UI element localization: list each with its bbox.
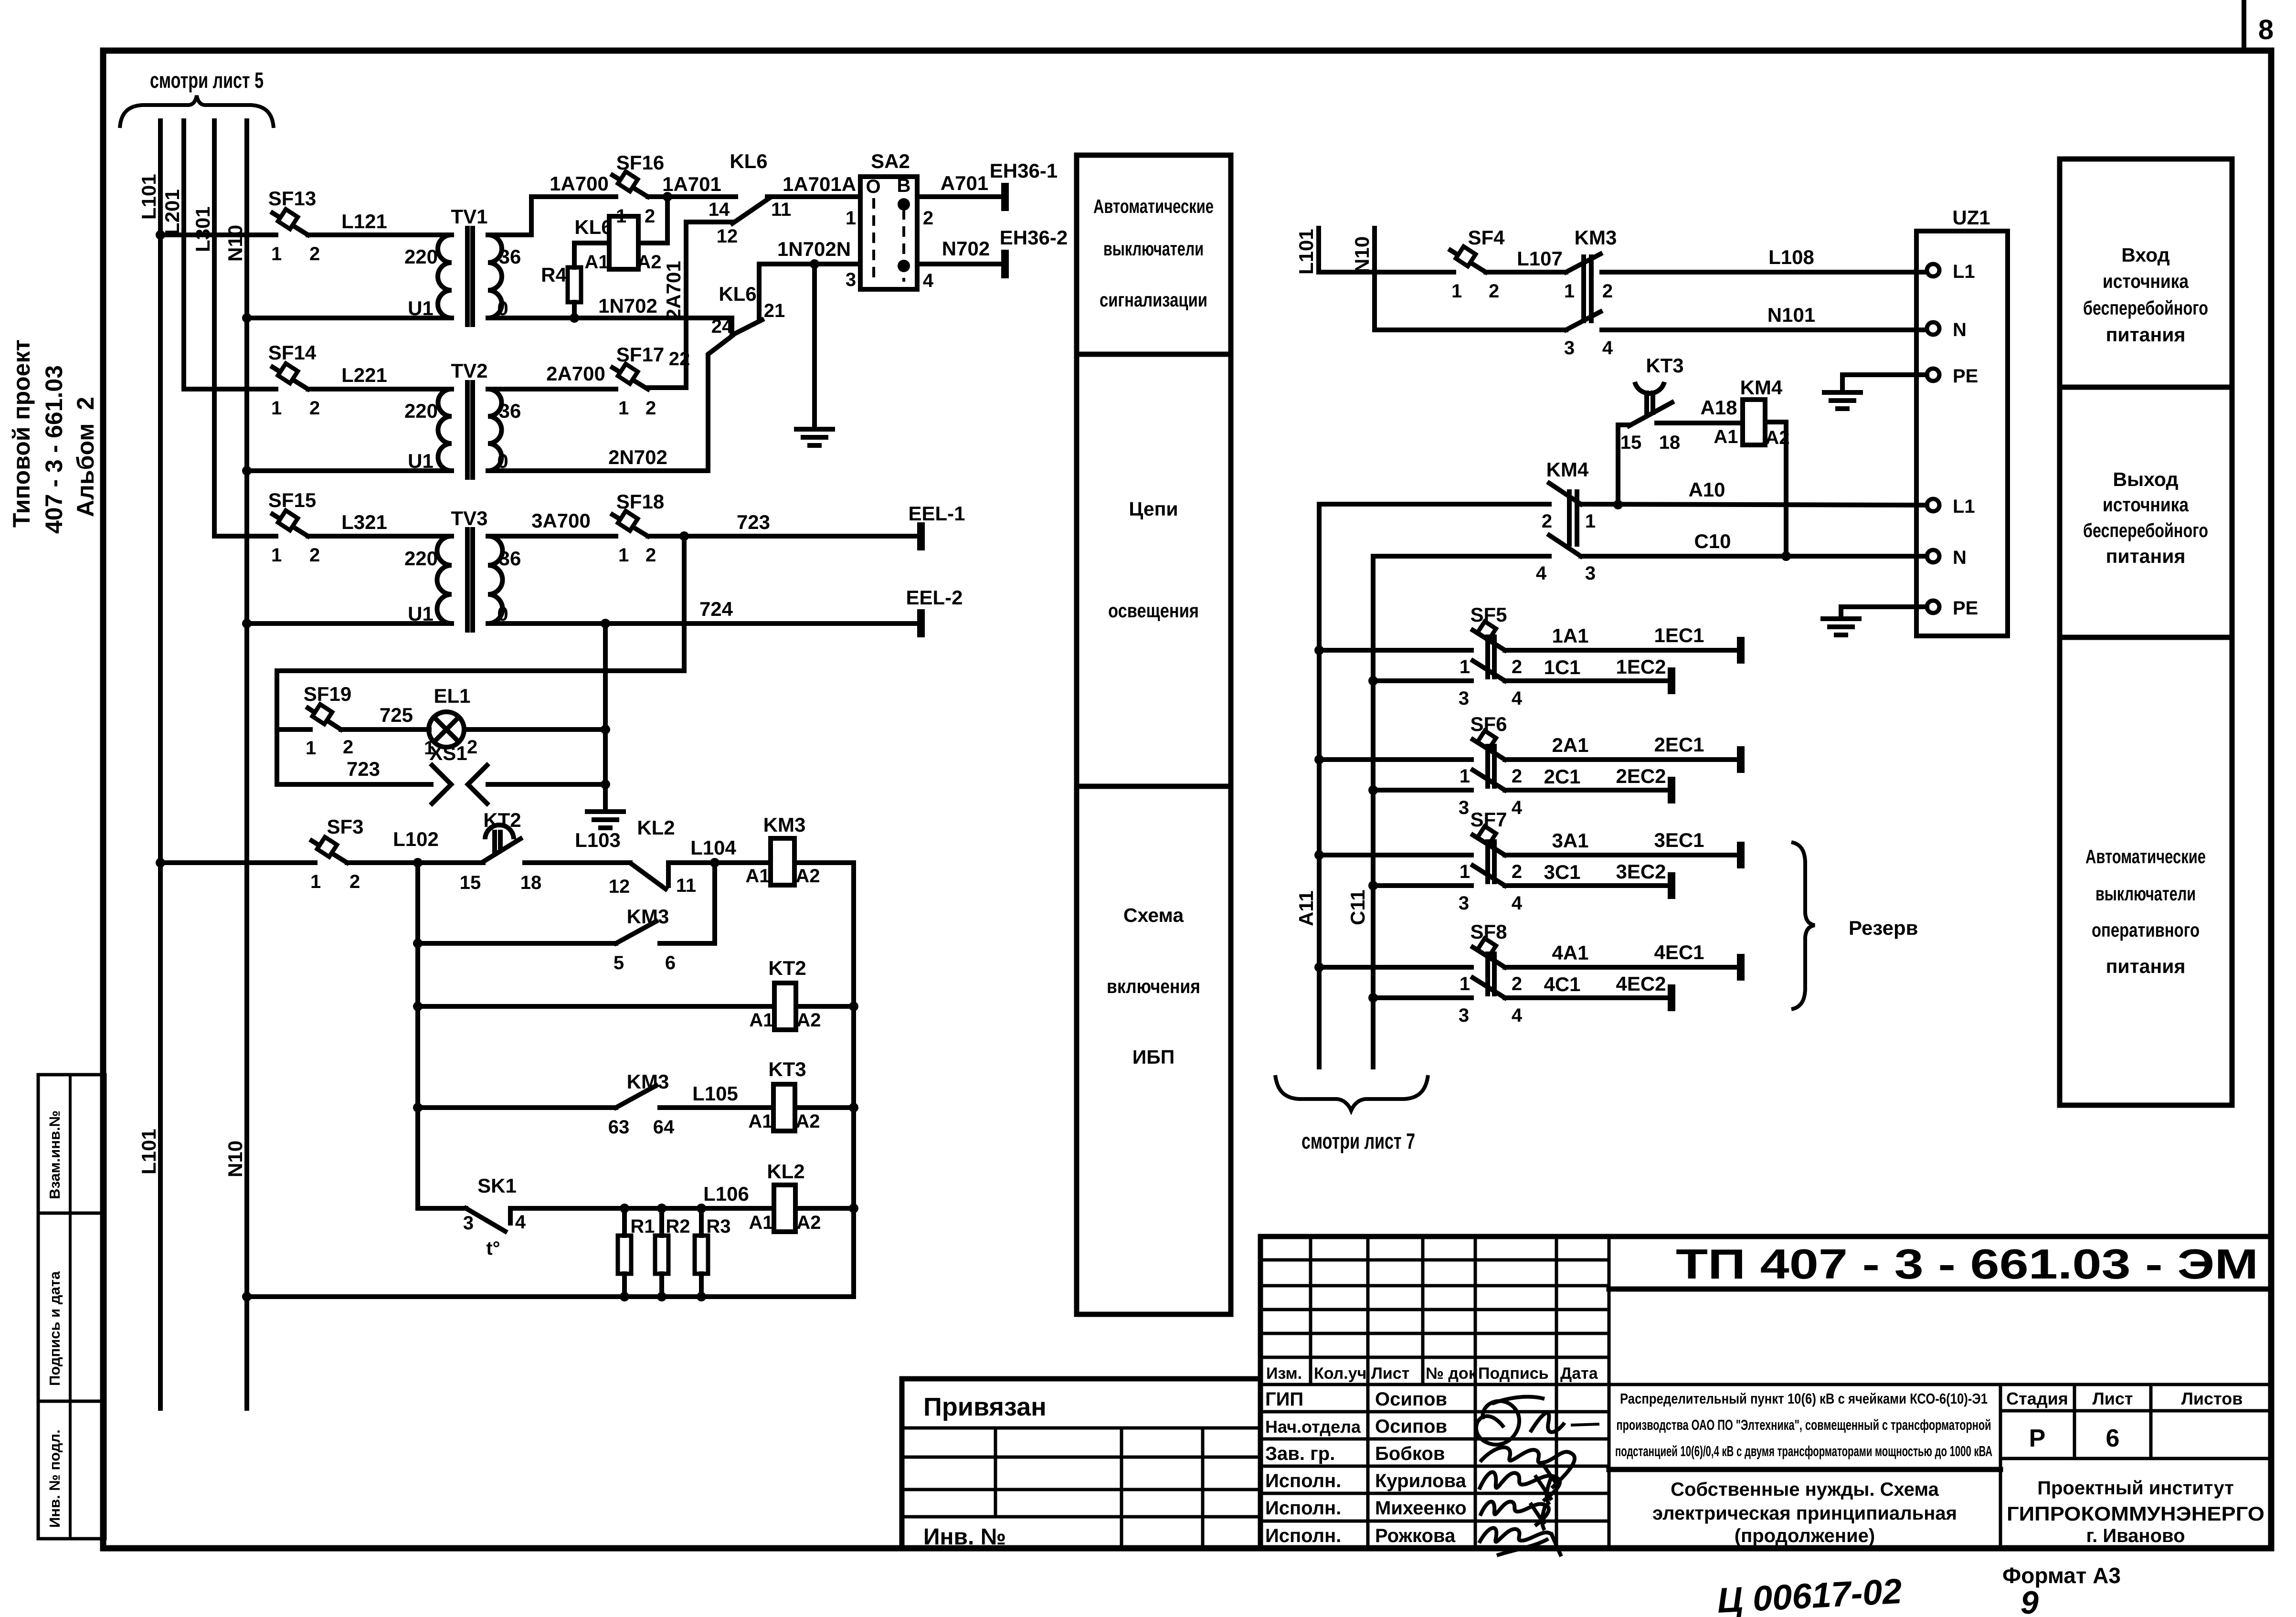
wire 1A1 to terminal bbox=[1505, 624, 1741, 650]
svg-text:1: 1 bbox=[271, 243, 282, 264]
wire 723 to terminal bbox=[648, 511, 921, 536]
svg-text:Осипов: Осипов bbox=[1375, 1389, 1447, 1410]
svg-text:A1: A1 bbox=[1714, 426, 1738, 447]
contactor coil KM4 bbox=[1714, 376, 1789, 448]
wire L221 bbox=[308, 364, 452, 389]
svg-text:2: 2 bbox=[1512, 861, 1522, 882]
lamp EL1 bbox=[424, 685, 477, 759]
svg-text:выключатели: выключатели bbox=[2095, 883, 2196, 905]
svg-text:Кол.уч: Кол.уч bbox=[1314, 1364, 1366, 1383]
contact SK1 thermal bbox=[418, 1174, 526, 1259]
transformer TV3 bbox=[404, 507, 521, 630]
node L101/SF3 junction bbox=[156, 858, 165, 867]
svg-text:источника: источника bbox=[2103, 494, 2189, 516]
svg-text:725: 725 bbox=[380, 704, 413, 726]
node A11 SF7 junction bbox=[1314, 850, 1324, 860]
svg-text:EEL-2: EEL-2 bbox=[906, 586, 963, 609]
breaker SF19 bbox=[277, 683, 353, 759]
svg-text:C11: C11 bbox=[1346, 889, 1369, 925]
svg-text:SF7: SF7 bbox=[1470, 808, 1507, 831]
node XS1 row junction bbox=[601, 780, 610, 789]
svg-text:N: N bbox=[1953, 319, 1967, 340]
svg-text:(продолжение): (продолжение) bbox=[1735, 1525, 1875, 1546]
svg-text:1: 1 bbox=[1564, 281, 1575, 302]
svg-text:3C1: 3C1 bbox=[1544, 861, 1580, 883]
svg-text:SF19: SF19 bbox=[304, 683, 351, 705]
breaker SF18 bbox=[613, 490, 664, 566]
wire 1A701 bbox=[648, 173, 736, 197]
svg-text:SF15: SF15 bbox=[268, 489, 316, 511]
breaker SF5 2pole bbox=[1319, 603, 1523, 709]
svg-text:1: 1 bbox=[271, 398, 282, 419]
bus N10 bbox=[224, 121, 247, 1408]
svg-text:смотри лист 7: смотри лист 7 bbox=[1301, 1129, 1415, 1153]
wire to KT2 coil bbox=[418, 1004, 774, 1009]
svg-text:1A1: 1A1 bbox=[1552, 624, 1588, 647]
wire lamp to ground bus bbox=[464, 727, 605, 732]
right legend divider 2 bbox=[2060, 635, 2232, 640]
svg-text:723: 723 bbox=[347, 758, 380, 780]
wire L101 to SF13 bbox=[160, 233, 276, 237]
svg-text:3: 3 bbox=[463, 1213, 474, 1234]
svg-text:24: 24 bbox=[711, 316, 733, 337]
svg-text:R2: R2 bbox=[666, 1216, 690, 1237]
svg-text:смотри лист 5: смотри лист 5 bbox=[150, 68, 264, 93]
svg-text:бесперебойного: бесперебойного bbox=[2083, 519, 2208, 541]
legend text Автоматические выключатели сигнализации bbox=[1093, 195, 1214, 311]
svg-text:4: 4 bbox=[515, 1212, 526, 1233]
node branch KM3-63 junction bbox=[413, 1103, 423, 1112]
node L101 right stub bbox=[1295, 228, 1319, 275]
node KT3 rail junction bbox=[849, 1103, 858, 1112]
svg-text:11: 11 bbox=[676, 875, 696, 896]
svg-text:PE: PE bbox=[1953, 598, 1978, 619]
wire L102 bbox=[347, 828, 461, 863]
node C10 junction bbox=[1781, 551, 1791, 561]
svg-text:1: 1 bbox=[306, 738, 316, 759]
svg-text:KL6: KL6 bbox=[730, 150, 767, 172]
legend text Цепи освещения bbox=[1108, 498, 1199, 622]
resistor R4 bbox=[541, 243, 609, 318]
svg-text:Схема: Схема bbox=[1123, 904, 1184, 926]
dash in date column bbox=[1571, 1424, 1599, 1425]
svg-text:A1: A1 bbox=[749, 1010, 773, 1031]
breaker SF14 bbox=[268, 341, 320, 419]
node C11 SF5 junction bbox=[1368, 676, 1378, 686]
svg-text:UZ1: UZ1 bbox=[1952, 206, 1990, 229]
wire KM4 coil A2 down to C10 bbox=[1765, 422, 1786, 556]
node N10 bottom junction bbox=[242, 1292, 252, 1301]
svg-text:KL6: KL6 bbox=[719, 283, 756, 305]
wire 2N702 bbox=[488, 446, 708, 471]
svg-text:4: 4 bbox=[1512, 1005, 1523, 1026]
breaker SF17 bbox=[613, 343, 664, 419]
svg-text:KM3: KM3 bbox=[627, 1070, 669, 1093]
legend text Выход источника бесперебойного питания bbox=[2083, 468, 2208, 567]
svg-text:A2: A2 bbox=[796, 1212, 821, 1233]
wire KT2 coil to rail bbox=[796, 1004, 854, 1009]
svg-text:2: 2 bbox=[645, 545, 656, 566]
wire L121 bbox=[308, 210, 452, 235]
wire L108 bbox=[1602, 246, 1927, 272]
svg-text:Михеенко: Михеенко bbox=[1375, 1498, 1467, 1519]
terminal 3EC2 bbox=[1668, 872, 1675, 899]
svg-text:SF13: SF13 bbox=[268, 187, 316, 210]
wire TV2 primary bottom to N10 bbox=[247, 468, 452, 473]
svg-text:Лист: Лист bbox=[2092, 1389, 2133, 1408]
wire N101 bbox=[1602, 304, 1927, 330]
svg-text:KT2: KT2 bbox=[768, 957, 806, 979]
signature Бобков bbox=[1480, 1447, 1575, 1488]
svg-text:производства ОАО ПО "Элтехника: производства ОАО ПО "Элтехника", совмеще… bbox=[1617, 1416, 1991, 1433]
svg-text:3: 3 bbox=[1459, 893, 1469, 914]
svg-text:Р: Р bbox=[2029, 1425, 2046, 1452]
svg-text:L201: L201 bbox=[161, 189, 183, 235]
wire A10 bbox=[1581, 478, 1927, 505]
node N10/TV1 junction bbox=[242, 313, 252, 323]
bus L301 bbox=[191, 121, 276, 536]
terminal 4EC1 bbox=[1737, 954, 1745, 981]
svg-text:3: 3 bbox=[846, 269, 856, 290]
привязан box bbox=[902, 1379, 1260, 1550]
wire to ground from 1N702N bbox=[812, 264, 817, 429]
svg-text:электрическая принципиальная: электрическая принципиальная bbox=[1652, 1503, 1957, 1524]
wire 3C1 to terminal bbox=[1505, 860, 1672, 886]
svg-text:4: 4 bbox=[1512, 797, 1523, 818]
svg-text:L102: L102 bbox=[393, 828, 439, 850]
svg-text:220: 220 bbox=[404, 400, 438, 422]
svg-text:4EC1: 4EC1 bbox=[1654, 941, 1704, 963]
wire N702 bbox=[917, 237, 1005, 264]
svg-text:64: 64 bbox=[653, 1117, 675, 1138]
svg-text:Стадия: Стадия bbox=[2006, 1389, 2068, 1408]
wire 3A1 to terminal bbox=[1505, 829, 1741, 855]
svg-text:Альбом 2: Альбом 2 bbox=[72, 397, 99, 517]
svg-text:A1: A1 bbox=[748, 1111, 772, 1132]
svg-text:L321: L321 bbox=[341, 511, 387, 533]
institute name bbox=[2007, 1478, 2264, 1546]
svg-text:6: 6 bbox=[665, 952, 676, 973]
svg-text:2: 2 bbox=[645, 206, 655, 227]
svg-text:Резерв: Резерв bbox=[1849, 917, 1918, 939]
contactor coil KM3 bbox=[745, 814, 820, 887]
svg-text:Инв. №: Инв. № bbox=[923, 1524, 1006, 1550]
svg-text:2: 2 bbox=[349, 871, 360, 892]
svg-text:2A700: 2A700 bbox=[546, 362, 605, 385]
svg-text:TV3: TV3 bbox=[451, 507, 487, 529]
wire TV1 primary bottom to N10 bbox=[247, 316, 452, 320]
svg-text:EL1: EL1 bbox=[434, 685, 470, 707]
svg-text:N101: N101 bbox=[1767, 304, 1815, 326]
wire control bottom return bbox=[247, 1294, 854, 1299]
node branch KT2 coil junction bbox=[413, 1002, 423, 1011]
svg-text:SF17: SF17 bbox=[616, 343, 664, 366]
svg-text:A2: A2 bbox=[795, 866, 820, 887]
resistor R1 bbox=[618, 1204, 655, 1301]
svg-text:36: 36 bbox=[499, 245, 521, 268]
resistor R2 bbox=[655, 1204, 690, 1301]
svg-text:N10: N10 bbox=[224, 225, 246, 262]
svg-text:R1: R1 bbox=[630, 1216, 655, 1237]
node A11 SF6 junction bbox=[1314, 755, 1324, 764]
svg-text:1A701: 1A701 bbox=[662, 173, 721, 195]
svg-text:R4: R4 bbox=[541, 264, 567, 286]
svg-text:г. Иваново: г. Иваново bbox=[2086, 1525, 2185, 1546]
svg-text:11: 11 bbox=[771, 199, 791, 220]
svg-text:2N702: 2N702 bbox=[608, 446, 667, 468]
node control branch junction bbox=[413, 858, 423, 867]
svg-text:L107: L107 bbox=[1517, 247, 1563, 270]
svg-text:A2: A2 bbox=[795, 1111, 820, 1132]
svg-text:1: 1 bbox=[1460, 861, 1470, 882]
svg-text:Типовой проект: Типовой проект bbox=[8, 339, 35, 528]
svg-text:Автоматические: Автоматические bbox=[1093, 195, 1214, 217]
wire 1A701A bbox=[767, 173, 860, 197]
svg-text:Выход: Выход bbox=[2113, 468, 2179, 490]
svg-text:3: 3 bbox=[1585, 563, 1596, 584]
resistor R3 bbox=[695, 1204, 731, 1301]
terminal 3EC1 bbox=[1737, 842, 1745, 868]
wire L106 bbox=[510, 1183, 774, 1208]
transformer TV1 bbox=[404, 205, 521, 325]
svg-text:L104: L104 bbox=[690, 836, 736, 859]
ground symbol below SA2 bbox=[796, 429, 833, 445]
node 724 tap junction bbox=[601, 619, 610, 628]
svg-text:2A701: 2A701 bbox=[662, 261, 685, 320]
svg-text:C10: C10 bbox=[1694, 530, 1731, 552]
svg-text:KT3: KT3 bbox=[1646, 354, 1683, 377]
svg-text:4C1: 4C1 bbox=[1544, 973, 1580, 995]
stamp cell Инв. № подл. bbox=[38, 1401, 105, 1539]
terminal 4EC2 bbox=[1668, 984, 1675, 1011]
svg-text:2: 2 bbox=[1512, 973, 1522, 994]
svg-text:Изм.: Изм. bbox=[1266, 1364, 1302, 1383]
svg-text:L1: L1 bbox=[1953, 496, 1975, 517]
relay coil KT3 bbox=[748, 1058, 820, 1132]
socket XS1 bbox=[429, 742, 487, 803]
svg-text:источника: источника bbox=[2103, 270, 2189, 292]
wire A18 bbox=[1657, 396, 1743, 423]
svg-text:SF8: SF8 bbox=[1470, 920, 1507, 943]
svg-text:L121: L121 bbox=[341, 210, 387, 233]
svg-text:A10: A10 bbox=[1688, 478, 1725, 501]
UPS unit UZ1 bbox=[1916, 206, 2008, 636]
ground symbol PE bottom bbox=[1823, 619, 1859, 635]
svg-text:SF5: SF5 bbox=[1470, 603, 1507, 626]
svg-text:питания: питания bbox=[2106, 324, 2186, 346]
terminal EEL-1 bbox=[908, 502, 965, 550]
svg-text:KM4: KM4 bbox=[1546, 458, 1589, 481]
wire 723 socket row bbox=[277, 758, 431, 784]
svg-text:№ док: № док bbox=[1426, 1364, 1477, 1383]
relay coil KL6 bbox=[574, 216, 661, 273]
signature Михеенко bbox=[1480, 1501, 1549, 1530]
contactor contact KM3 main bbox=[1564, 226, 1617, 359]
svg-text:L101: L101 bbox=[138, 1129, 160, 1174]
svg-text:Подпись: Подпись bbox=[1478, 1364, 1549, 1383]
wire 2A700 bbox=[488, 362, 616, 389]
node N10/TV3 junction bbox=[242, 619, 252, 628]
terminal EEL-2 bbox=[906, 586, 963, 637]
svg-text:18: 18 bbox=[520, 872, 542, 893]
svg-text:2EC1: 2EC1 bbox=[1654, 733, 1704, 756]
svg-text:SF18: SF18 bbox=[616, 490, 664, 513]
wire 1A700 riser bbox=[488, 172, 616, 235]
svg-text:KM3: KM3 bbox=[1575, 226, 1617, 249]
node L104 junction bbox=[710, 858, 719, 867]
middle legend divider 1 bbox=[1077, 352, 1231, 357]
svg-text:3: 3 bbox=[1459, 797, 1469, 818]
svg-text:освещения: освещения bbox=[1108, 600, 1199, 622]
wire L107 bbox=[1486, 247, 1566, 272]
svg-text:ГИП: ГИП bbox=[1265, 1389, 1303, 1410]
svg-text:Исполн.: Исполн. bbox=[1265, 1470, 1341, 1491]
wire KM3 aux to L104 node bbox=[660, 863, 715, 943]
svg-text:SF14: SF14 bbox=[268, 341, 317, 364]
svg-text:4: 4 bbox=[923, 270, 934, 291]
svg-text:L106: L106 bbox=[703, 1183, 749, 1205]
svg-text:Лист: Лист bbox=[1371, 1364, 1409, 1383]
node R4/1N702 junction bbox=[570, 313, 579, 323]
svg-text:SF4: SF4 bbox=[1468, 226, 1505, 249]
svg-text:SF3: SF3 bbox=[327, 815, 363, 838]
svg-text:N702: N702 bbox=[942, 237, 990, 260]
svg-text:Осипов: Осипов bbox=[1375, 1416, 1447, 1437]
svg-text:3A700: 3A700 bbox=[531, 509, 591, 532]
wire N10 to KM3 main bbox=[1375, 328, 1566, 332]
node 1A701 junction bbox=[663, 192, 672, 201]
svg-text:1: 1 bbox=[1460, 656, 1470, 677]
svg-text:Распределительный пункт 10(6): Распределительный пункт 10(6) кВ с ячейк… bbox=[1620, 1390, 1988, 1407]
title block outer bbox=[1260, 1237, 2271, 1548]
wire to KM3 63-64 contact bbox=[418, 1105, 616, 1110]
svg-text:A2: A2 bbox=[637, 252, 661, 273]
node branch KM3 aux junction bbox=[413, 939, 423, 948]
svg-text:36: 36 bbox=[499, 547, 521, 570]
breaker SF7 2pole bbox=[1319, 808, 1523, 914]
svg-text:3: 3 bbox=[1564, 338, 1575, 359]
svg-text:питания: питания bbox=[2106, 955, 2186, 977]
svg-text:2: 2 bbox=[309, 243, 320, 264]
contact KL6 changeover 1 bbox=[686, 150, 791, 247]
wire 724 to terminal bbox=[488, 598, 921, 624]
node C11 SF8 junction bbox=[1368, 993, 1378, 1003]
svg-text:SF16: SF16 bbox=[616, 151, 664, 174]
svg-text:36: 36 bbox=[499, 400, 521, 422]
contact KM3 aux 63-64 bbox=[608, 1070, 675, 1138]
svg-text:ТП 407 - 3 - 661.03 - ЭМ: ТП 407 - 3 - 661.03 - ЭМ bbox=[1676, 1240, 2258, 1288]
signature Рожкова bbox=[1479, 1528, 1561, 1556]
line under description bbox=[1609, 1467, 2000, 1472]
wire L104 bbox=[668, 836, 771, 863]
node L101/TV1 junction bbox=[156, 230, 165, 240]
svg-text:1A700: 1A700 bbox=[550, 172, 609, 195]
svg-text:12: 12 bbox=[609, 876, 630, 897]
wire L101 to SF4 bbox=[1319, 270, 1454, 275]
svg-text:3EC2: 3EC2 bbox=[1616, 860, 1666, 883]
svg-text:EH36-2: EH36-2 bbox=[1000, 226, 1068, 249]
wire KM3 coil to rail bbox=[794, 860, 854, 865]
svg-text:Исполн.: Исполн. bbox=[1265, 1525, 1341, 1546]
svg-text:выключатели: выключатели bbox=[1103, 238, 1204, 260]
names column bbox=[1375, 1389, 1467, 1546]
wire A701 bbox=[917, 172, 1005, 197]
svg-text:1: 1 bbox=[271, 545, 282, 566]
breaker SF6 2pole bbox=[1319, 713, 1523, 818]
svg-text:5: 5 bbox=[614, 952, 624, 973]
svg-text:8: 8 bbox=[2258, 14, 2274, 45]
svg-text:2EC2: 2EC2 bbox=[1616, 765, 1666, 787]
ground symbol below lamp loop bbox=[587, 812, 624, 828]
svg-text:1EC1: 1EC1 bbox=[1654, 624, 1704, 646]
svg-text:SK1: SK1 bbox=[477, 1174, 517, 1197]
contact KT2 time delay bbox=[460, 809, 542, 893]
drawing name text bbox=[1652, 1479, 1957, 1546]
svg-text:EH36-1: EH36-1 bbox=[990, 159, 1058, 182]
middle legend divider 2 bbox=[1077, 784, 1231, 789]
svg-text:14: 14 bbox=[709, 199, 730, 220]
svg-text:2: 2 bbox=[1602, 281, 1613, 302]
svg-text:A18: A18 bbox=[1700, 396, 1737, 419]
svg-text:KL2: KL2 bbox=[767, 1160, 804, 1183]
svg-text:2: 2 bbox=[1542, 511, 1552, 532]
svg-text:TV1: TV1 bbox=[451, 205, 487, 228]
svg-text:1: 1 bbox=[618, 398, 629, 419]
svg-text:KL6: KL6 bbox=[574, 216, 612, 238]
svg-text:SF6: SF6 bbox=[1470, 713, 1507, 735]
wire rail A11 bbox=[1295, 504, 1549, 1067]
contact KM3 aux 5-6 bbox=[614, 905, 676, 973]
svg-text:сигнализации: сигнализации bbox=[1100, 289, 1207, 311]
sheet number tick top right bbox=[2242, 0, 2246, 51]
wire socket to ground bus bbox=[488, 782, 605, 787]
svg-text:2: 2 bbox=[1512, 766, 1522, 787]
node 1N702N ground tap bbox=[810, 259, 819, 269]
breaker SF15 bbox=[268, 489, 320, 566]
wire 1N702 bbox=[488, 295, 732, 318]
svg-text:724: 724 bbox=[699, 598, 733, 620]
wire L105 bbox=[660, 1082, 773, 1108]
relay coil KT2 bbox=[749, 957, 821, 1031]
node 723 junction bbox=[679, 531, 689, 541]
wire control right rail bbox=[851, 863, 856, 1297]
svg-text:Взам.инв.№: Взам.инв.№ bbox=[46, 1110, 63, 1199]
brace смотри лист 7 bbox=[1275, 1075, 1428, 1110]
svg-text:22: 22 bbox=[669, 349, 690, 370]
svg-text:О: О bbox=[866, 176, 880, 197]
svg-text:L101: L101 bbox=[1295, 229, 1317, 275]
bus L101 bbox=[138, 121, 160, 1408]
wire 2A701 vertical bbox=[648, 222, 686, 388]
svg-text:3: 3 bbox=[1459, 688, 1469, 709]
svg-text:1: 1 bbox=[1460, 973, 1470, 994]
stage/sheet labels bbox=[2006, 1389, 2243, 1408]
svg-text:2: 2 bbox=[309, 545, 320, 566]
wire SF19 loop feed bbox=[277, 536, 684, 784]
svg-text:2: 2 bbox=[1489, 281, 1499, 302]
svg-text:4EC2: 4EC2 bbox=[1616, 972, 1666, 995]
contactor contact KM4 2pole bbox=[1536, 458, 1596, 584]
svg-text:2: 2 bbox=[309, 398, 320, 419]
svg-text:Привязан: Привязан bbox=[923, 1393, 1047, 1421]
svg-text:220: 220 bbox=[404, 547, 438, 570]
node N10/TV2 junction bbox=[242, 466, 252, 476]
wire L103 bbox=[525, 829, 630, 863]
svg-text:Проектный институт: Проектный институт bbox=[2037, 1478, 2234, 1499]
wire 4C1 to terminal bbox=[1505, 972, 1672, 998]
svg-text:1C1: 1C1 bbox=[1544, 656, 1580, 678]
svg-text:подстанцией 10(6)/0,4 кВ с дву: подстанцией 10(6)/0,4 кВ с двумя трансфо… bbox=[1615, 1443, 1992, 1459]
